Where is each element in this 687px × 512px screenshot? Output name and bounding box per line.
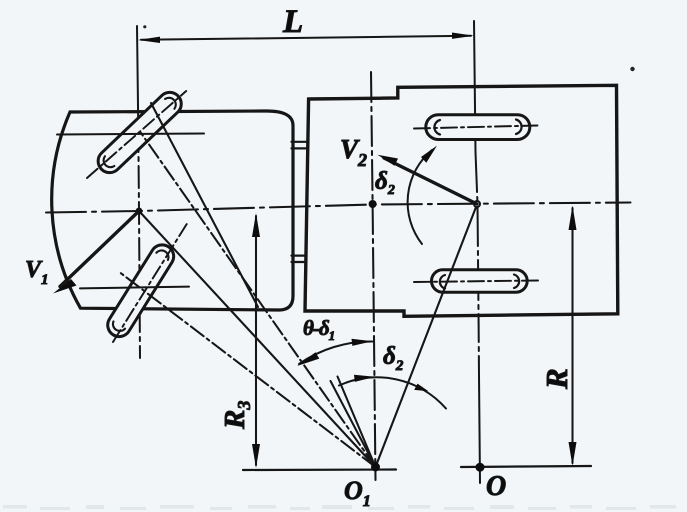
label O1 (344, 476, 371, 510)
scan noise strip at bottom (3, 505, 676, 510)
front-left wheel axis dash-dot (87, 91, 186, 178)
wheel plane line through front-left wheel (solid) (151, 103, 258, 307)
baseline through O (461, 466, 591, 467)
label delta2 lower (383, 343, 404, 374)
speck dot top right (630, 67, 634, 71)
front-right wheel horizontal stub line (80, 287, 189, 289)
rotation arc at rear axle (408, 146, 437, 244)
fan line B (O1 to front-right wheel axle, dash-dot) (118, 271, 376, 467)
coupling drawbar top (292, 142, 308, 149)
front-right wheel (lower, steered) (103, 241, 178, 341)
rear upper wheel axis dash-dot (414, 126, 537, 129)
fan line A (O1 to front axle centre, solid) (139, 211, 376, 467)
R3 dimension line (252, 213, 260, 468)
horizontal axle centerline (46, 203, 631, 213)
arc theta minus delta1 (297, 339, 373, 366)
svg-text:R: R (539, 368, 574, 390)
rear axle vertical line dash-dot lower part (476, 152, 481, 483)
rear lower wheel (432, 270, 528, 292)
node O1 dot (371, 463, 380, 472)
rear upper wheel (426, 115, 530, 140)
R dimension line (569, 206, 577, 467)
svg-text:O: O (486, 471, 506, 502)
node hitch dot (369, 200, 377, 208)
label theta minus delta1 (303, 316, 335, 343)
label R3 (rotated) (219, 401, 254, 430)
front axle vertical extension line (137, 26, 140, 358)
front-left wheel (upper, steered) (93, 88, 186, 178)
line D (O1 to rear axle centre) (376, 205, 478, 468)
dimension line L (138, 33, 474, 44)
rear axle vertical extension line (solid top) (474, 21, 476, 152)
label O (486, 471, 506, 502)
label V2 (340, 134, 367, 170)
label L (282, 4, 303, 40)
node F: front axle centre dot (136, 208, 143, 215)
label V1 (25, 257, 49, 288)
rear body outline (305, 85, 618, 316)
node rear axle centre (small open circle) (474, 201, 480, 207)
label R (rotated) (539, 368, 574, 390)
label delta2 upper (375, 168, 395, 198)
velocity vector V2 (378, 155, 478, 204)
front-left wheel horizontal stub line (57, 134, 204, 135)
svg-text:L: L (282, 4, 303, 40)
short ray S2 from O1 (338, 377, 376, 468)
front body outline (52, 111, 293, 310)
speck dot near left extension top (143, 25, 146, 28)
coupling drawbar bottom (292, 256, 307, 262)
front-right wheel axis dash-dot (113, 222, 188, 342)
vertical dash-dot line through hitch down to O1 (371, 72, 376, 480)
baseline through O1 (243, 468, 396, 471)
rear lower wheel axis dash-dot (414, 281, 538, 283)
fan line C (O1 to front-left wheel axle, dash-dot) (141, 133, 376, 467)
node O dot (476, 463, 485, 472)
arc delta2 lower (339, 375, 446, 409)
velocity vector V1 (53, 211, 139, 294)
short ray S1 from O1 (331, 381, 376, 467)
